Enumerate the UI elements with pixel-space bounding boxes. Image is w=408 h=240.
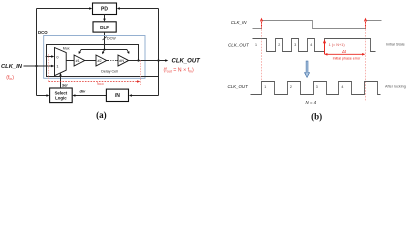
- label CLK_OUT initial (b): [228, 42, 250, 47]
- label delta-t red: [341, 49, 347, 54]
- label Delay Cell: [101, 69, 118, 73]
- svg-text:DCO: DCO: [38, 30, 48, 35]
- red rising edge arrow CLK_IN 1: [260, 18, 263, 29]
- box DLF: [93, 22, 116, 32]
- waveform CLK_OUT after locking: [251, 82, 381, 95]
- label Mux: [63, 46, 70, 50]
- pulse numbers initial state: [255, 43, 312, 47]
- red dashed vertical at first input edge: [261, 21, 263, 81]
- junction feedback/output: [137, 59, 139, 61]
- DCW distribution line: [81, 49, 127, 51]
- label CLK_IN: [1, 64, 23, 70]
- svg-text:#N: #N: [119, 59, 124, 63]
- svg-text:div: div: [80, 88, 87, 93]
- label t_DCO red: [97, 81, 104, 86]
- svg-text:Δt: Δt: [341, 49, 347, 54]
- red dashed t_DCO left marker: [48, 54, 50, 81]
- svg-text:1 (= N+1): 1 (= N+1): [329, 43, 346, 47]
- caption (b): [311, 111, 322, 121]
- wire into delay cell N: [116, 60, 118, 62]
- wire CLK_OUT feedback to PD right input: [117, 7, 159, 10]
- delay cell #N: [118, 55, 129, 66]
- junction CLK_OUT net: [157, 59, 159, 61]
- label 1 (= N+1) red: [329, 43, 346, 47]
- label N = 4: [306, 100, 317, 105]
- svg-text:4: 4: [341, 85, 343, 89]
- waveform CLK_IN: [253, 21, 382, 29]
- svg-text:CLK_OUT: CLK_OUT: [228, 84, 249, 89]
- wire DLF to DCW distribution: [104, 32, 106, 49]
- wire CLK_IN into mux input 1: [24, 65, 55, 68]
- svg-text:3: 3: [294, 43, 296, 47]
- red rising edge arrow CLK_IN 2: [364, 18, 367, 29]
- svg-text:CLK_IN: CLK_IN: [1, 64, 23, 70]
- label DCO: [38, 30, 48, 35]
- mux: [55, 48, 67, 76]
- svg-text:2: 2: [290, 85, 292, 89]
- waveform CLK_OUT initial state: [253, 39, 376, 52]
- label Sel: [62, 83, 68, 87]
- DCW control arrow to delay cell 1: [79, 50, 82, 55]
- wire CLK_IN vertical branch (to PD and Select Logic): [36, 9, 38, 96]
- svg-text:Logic: Logic: [55, 96, 67, 101]
- svg-text:(a): (a): [96, 110, 107, 120]
- blue transition arrow: [305, 61, 310, 77]
- wire CLK_OUT vertical feedback (to PD and /N): [158, 9, 160, 96]
- label Initial phase error red: [333, 57, 362, 61]
- svg-text:/N: /N: [115, 93, 120, 99]
- wire output to CLK_OUT: [129, 59, 169, 62]
- caption (a): [96, 110, 107, 120]
- wire CLK_OUT to /N: [129, 94, 159, 97]
- svg-text:Mux: Mux: [63, 46, 70, 50]
- svg-text:(b): (b): [311, 111, 322, 121]
- wire delay cell 1 to 2: [85, 60, 96, 62]
- wire div from /N to Select Logic: [72, 94, 106, 97]
- bus slash on DCW wire: [103, 37, 107, 40]
- junction DCW wire crossing feedback line: [104, 44, 106, 46]
- svg-text:Select: Select: [55, 90, 68, 95]
- svg-text:3: 3: [316, 85, 318, 89]
- svg-text:4: 4: [310, 43, 312, 47]
- label CLK_OUT after locking (b): [228, 84, 249, 89]
- wire mux output to delay cell 1: [66, 60, 74, 62]
- label Initial State: [386, 43, 405, 47]
- svg-text:0: 0: [56, 55, 58, 59]
- DCO box (blue): [44, 36, 145, 79]
- junction DLF wire on DCW line: [104, 49, 106, 51]
- svg-text:CLK_OUT: CLK_OUT: [228, 42, 250, 47]
- svg-text:Initial phase error: Initial phase error: [333, 57, 362, 61]
- delay cell #1: [74, 55, 85, 66]
- svg-text:1: 1: [264, 85, 266, 89]
- svg-text:#1: #1: [76, 59, 80, 63]
- svg-text:Initial State: Initial State: [386, 43, 405, 47]
- svg-text:2: 2: [278, 43, 280, 47]
- dots between delay cells: [110, 60, 116, 61]
- label CLK_OUT: [172, 59, 202, 65]
- svg-text:N = 4: N = 4: [306, 100, 317, 105]
- box Select Logic: [50, 88, 73, 103]
- svg-text:After locking: After locking: [385, 85, 406, 89]
- svg-text:1: 1: [56, 65, 58, 69]
- red dashed t_DCO horizontal arrow: [49, 80, 141, 83]
- wire CLK_IN to PD left input: [37, 7, 93, 10]
- box /N: [106, 89, 128, 101]
- label After locking: [385, 85, 406, 89]
- svg-text:#2: #2: [98, 59, 102, 63]
- red dashed vertical at second input edge: [365, 21, 367, 102]
- junction CLK_IN split: [35, 65, 37, 67]
- svg-text:DLF: DLF: [100, 25, 109, 30]
- label DCW: [107, 37, 116, 41]
- svg-text:CLK_OUT: CLK_OUT: [172, 59, 202, 65]
- wire into Select Logic: [37, 94, 50, 97]
- svg-text:CLK_IN: CLK_IN: [231, 20, 248, 25]
- svg-text:Delay Cell: Delay Cell: [101, 69, 118, 73]
- red dashed t_DCO right marker: [140, 61, 142, 86]
- label (f_out = N x f_in) red: [164, 67, 194, 73]
- DCW control arrow to delay cell N: [127, 50, 130, 55]
- box PD: [93, 3, 117, 15]
- wire sel from Select Logic to mux: [59, 73, 62, 88]
- svg-text:1: 1: [255, 43, 257, 47]
- svg-text:PD: PD: [101, 7, 108, 13]
- junction feedback branch to mux input 0: [46, 56, 48, 58]
- wire delay cell 2 out: [107, 60, 109, 62]
- wire PD to DLF: [103, 15, 106, 22]
- delta-t double arrow: [324, 53, 365, 56]
- feedback loop wire (delay line output around to mux input 0 and to output net): [47, 45, 159, 77]
- wire feedback branch into mux input 0: [47, 55, 55, 58]
- red arrow on pulse N+1 rising edge: [323, 39, 326, 54]
- label div: [80, 88, 87, 93]
- delay cell #2: [96, 55, 107, 66]
- label (f_in) red: [6, 75, 14, 81]
- pulse numbers after locking: [264, 85, 343, 89]
- svg-text:DCW: DCW: [107, 37, 116, 41]
- DCW control arrow to delay cell 2: [102, 50, 105, 55]
- label CLK_IN (b): [231, 20, 248, 25]
